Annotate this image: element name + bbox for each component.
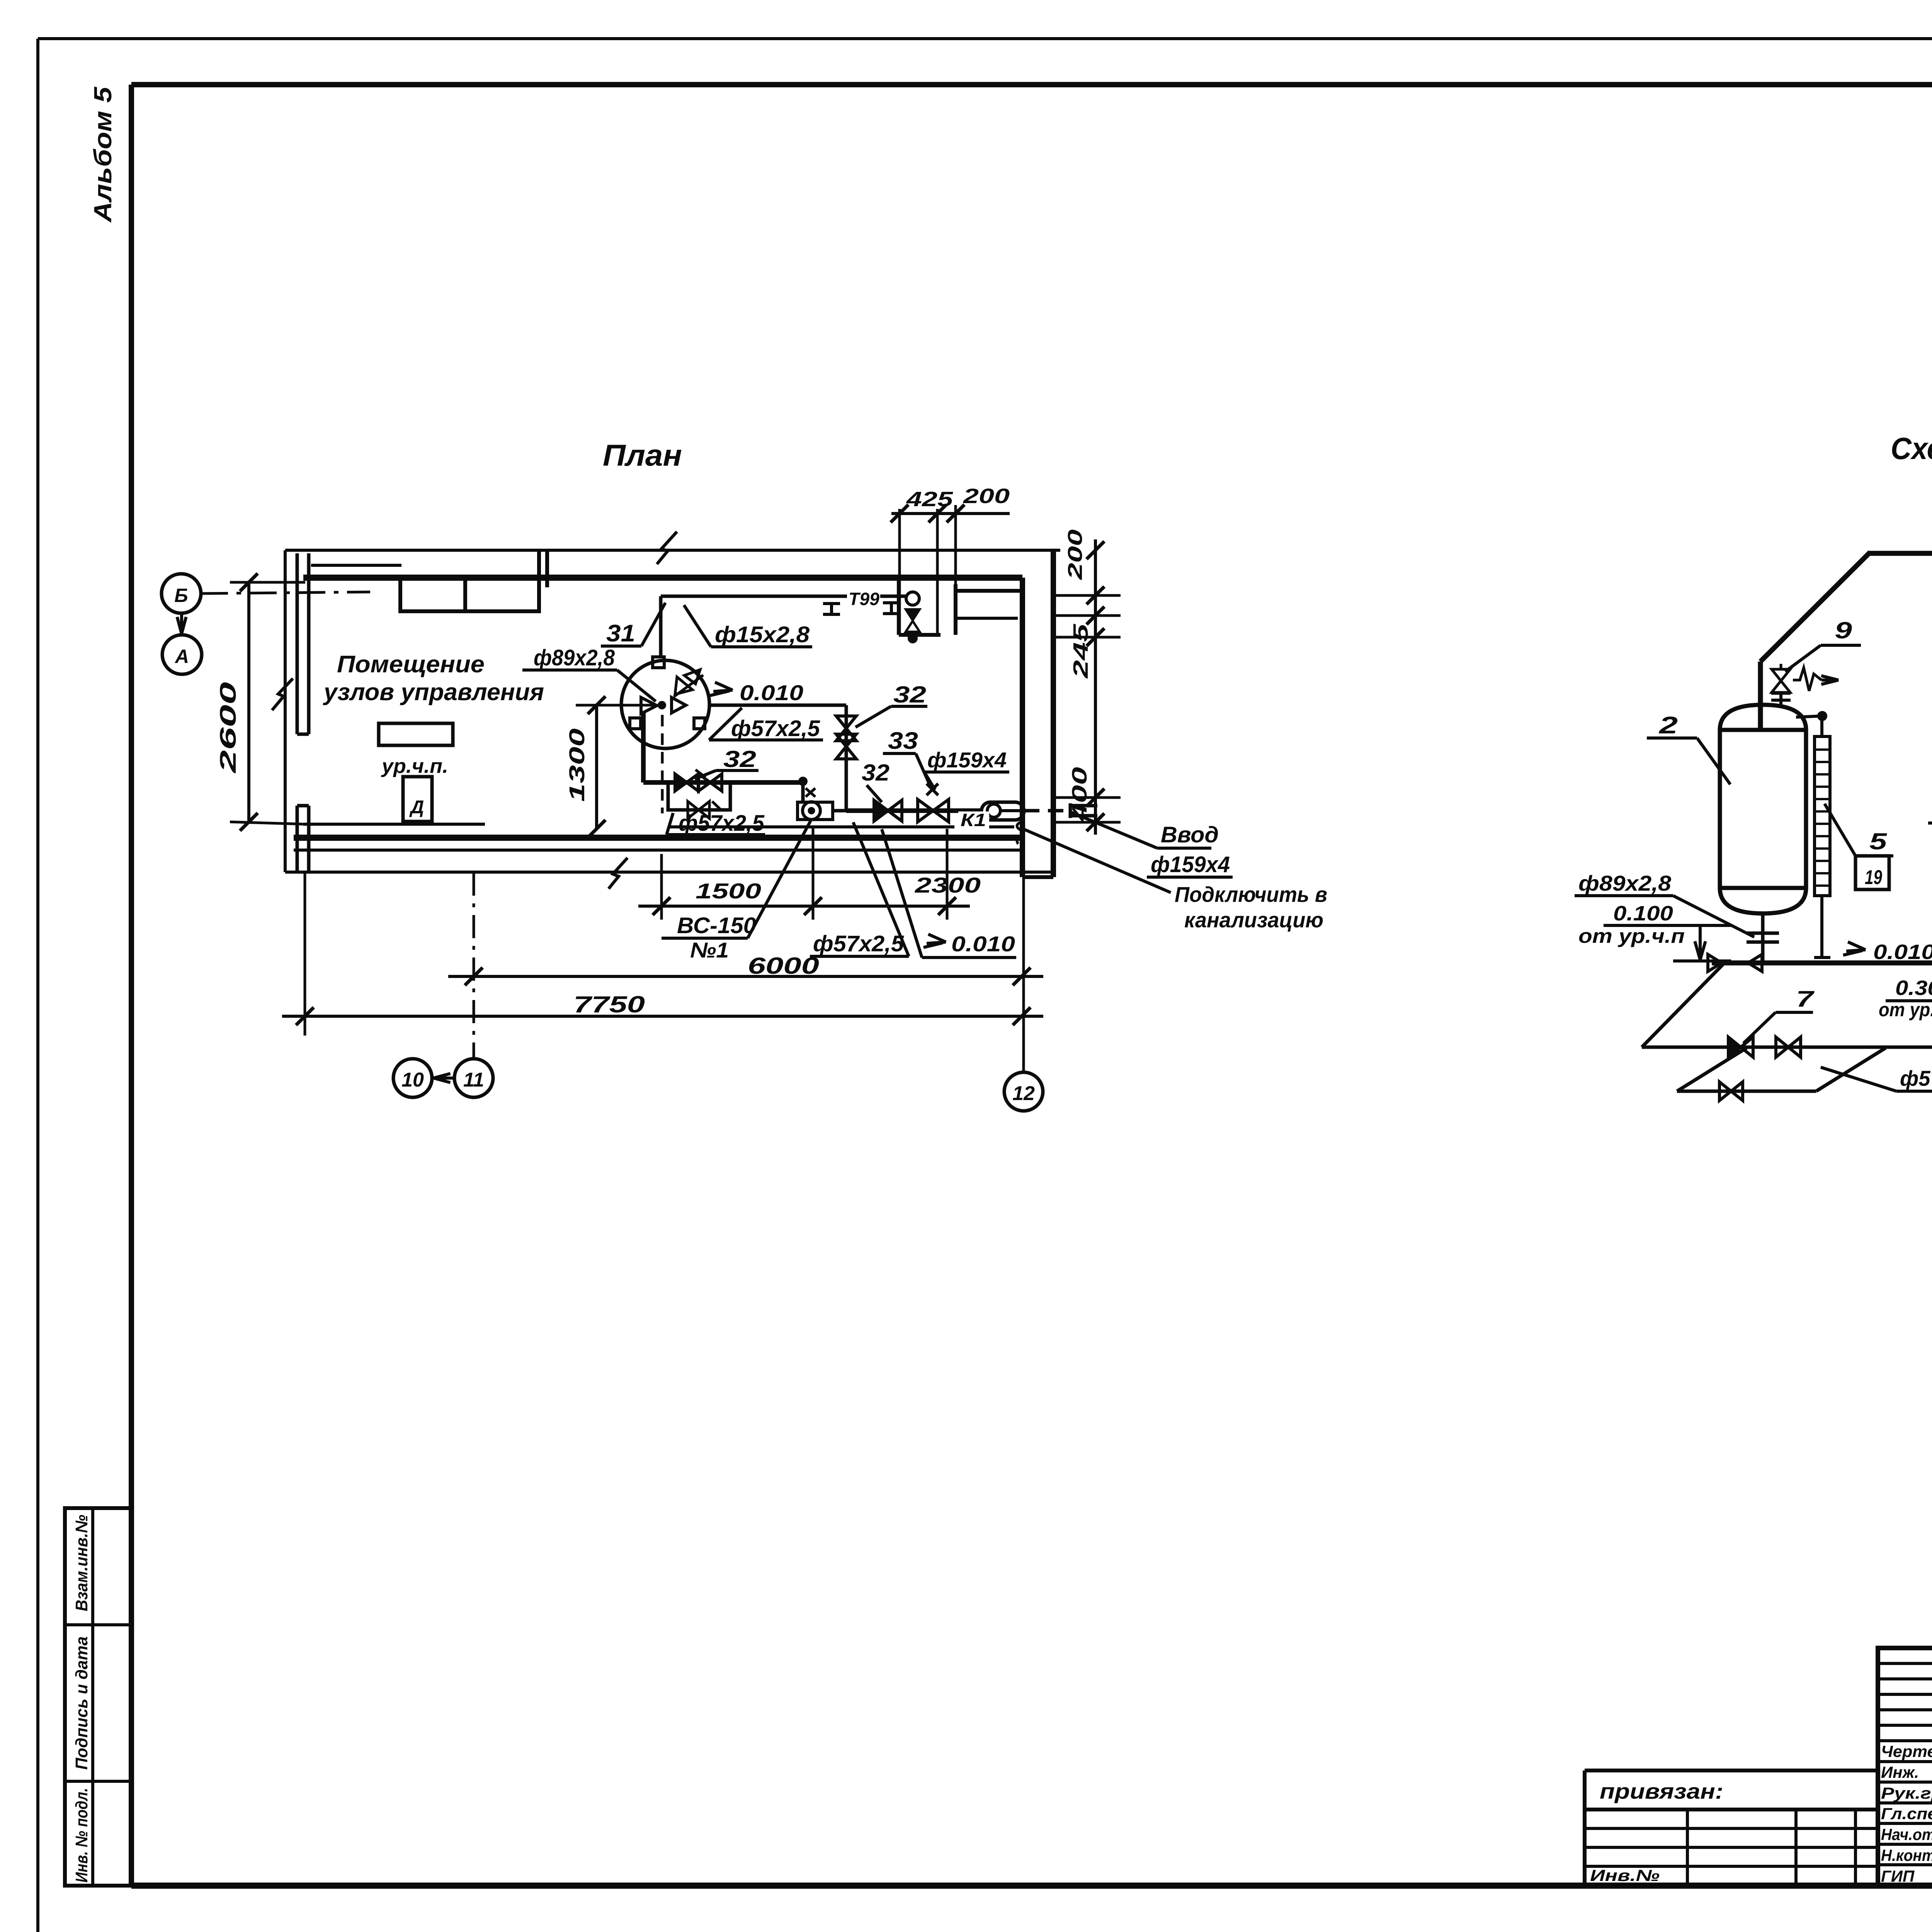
plan top wall pier lines bbox=[539, 550, 547, 587]
svg-text:Т99: Т99 bbox=[849, 589, 879, 609]
svg-text:Инв. № подл.: Инв. № подл. bbox=[72, 1788, 91, 1883]
svg-text:№1: №1 bbox=[690, 938, 729, 962]
svg-text:ф89х2,8: ф89х2,8 bbox=[534, 645, 615, 670]
label 33 bbox=[883, 728, 931, 788]
svg-text:2: 2 bbox=[1659, 712, 1678, 739]
valve 33 lower bbox=[918, 784, 949, 822]
svg-text:узлов управления: узлов управления bbox=[323, 679, 544, 706]
tank bottom pipe with flanges bbox=[1747, 913, 1779, 963]
svg-text:0.010: 0.010 bbox=[951, 932, 1015, 956]
elevation 0.100 schema bbox=[1578, 902, 1731, 961]
flow arrows at pipe start bbox=[1708, 954, 1762, 971]
svg-text:0.100: 0.100 bbox=[1613, 902, 1673, 925]
plan left wall outer line bbox=[284, 550, 287, 872]
label 0.010 bottom bbox=[882, 829, 1016, 957]
svg-text:ф57х2,5: ф57х2,5 bbox=[813, 931, 904, 956]
svg-text:2300: 2300 bbox=[915, 873, 981, 897]
svg-text:ф57х2,5: ф57х2,5 bbox=[731, 716, 820, 741]
svg-text:ф159х4: ф159х4 bbox=[1151, 852, 1230, 877]
svg-text:канализацию: канализацию bbox=[1184, 908, 1323, 932]
label f57x2.5 bottom bbox=[810, 822, 909, 956]
svg-text:ф159х4: ф159х4 bbox=[927, 748, 1007, 772]
pipe riser from unit bbox=[641, 713, 646, 782]
room label pomeshchenie uzlov upravleniya bbox=[323, 651, 544, 706]
axis B dash-dot line bbox=[201, 592, 370, 594]
axis B arrow to A bbox=[177, 613, 186, 634]
label f89x2.8 schema bbox=[1575, 871, 1754, 937]
svg-text:привязан:: привязан: bbox=[1600, 1779, 1723, 1803]
junction dot and drop to meter bbox=[799, 778, 815, 802]
plan bottom wall break symbol bbox=[609, 858, 628, 889]
pipe from unit right with slope 0.010 bbox=[709, 704, 846, 707]
valves 7 on floor edge bbox=[1728, 1037, 1801, 1057]
plan entry niche lines bbox=[899, 578, 1022, 635]
svg-text:6000: 6000 bbox=[748, 953, 819, 979]
plan bottom wall inner line bbox=[303, 823, 485, 826]
right dimension line vertical bbox=[1053, 539, 1121, 835]
svg-text:7: 7 bbox=[1796, 986, 1815, 1012]
control unit dashed drain line bbox=[661, 715, 664, 813]
svg-text:1500: 1500 bbox=[696, 879, 761, 903]
wall sleeve gland bbox=[981, 802, 1024, 820]
svg-text:Рук.гр.: Рук.гр. bbox=[1881, 1784, 1932, 1802]
svg-text:Схема трубопроводов: Схема трубопроводов bbox=[1891, 431, 1932, 466]
svg-text:200: 200 bbox=[1064, 529, 1087, 580]
svg-text:0.010: 0.010 bbox=[740, 680, 803, 705]
svg-text:Н.контр.: Н.контр. bbox=[1881, 1846, 1932, 1864]
svg-text:ф57х2,5: ф57х2,5 bbox=[1900, 1066, 1932, 1090]
svg-text:32: 32 bbox=[862, 760, 889, 786]
title row Инж. bbox=[1881, 1760, 1932, 1782]
svg-text:ГИП: ГИП bbox=[1881, 1867, 1915, 1885]
check valve 32 lower bbox=[874, 800, 902, 821]
svg-text:План: План bbox=[603, 438, 682, 472]
svg-text:12: 12 bbox=[1012, 1082, 1035, 1105]
lower floor plane bbox=[1677, 1048, 1886, 1091]
label f15x2.8 plan bbox=[684, 605, 812, 647]
svg-text:32: 32 bbox=[723, 746, 756, 772]
water meter VS-150 bbox=[798, 802, 846, 820]
label 0.010 slope schema bbox=[1843, 940, 1932, 964]
label 32 lower bbox=[862, 760, 889, 802]
elevation 0.300 bbox=[1879, 976, 1932, 1035]
svg-text:2600: 2600 bbox=[216, 682, 241, 774]
dimension 1300 bbox=[565, 696, 657, 838]
safety valve 9 group bbox=[1771, 664, 1838, 707]
svg-text:от ур.ч.п: от ур.ч.п bbox=[1578, 925, 1685, 947]
svg-text:Помещение: Помещение bbox=[337, 651, 485, 678]
label 2 tank bbox=[1647, 712, 1730, 784]
plan top wall inner thick line bbox=[303, 575, 1022, 581]
svg-text:7750: 7750 bbox=[573, 992, 645, 1017]
title row Гл.спец bbox=[1881, 1802, 1932, 1823]
pipe dashed through wall bbox=[1024, 809, 1070, 813]
svg-text:ур.ч.п.: ур.ч.п. bbox=[381, 755, 448, 777]
arrow 11 to 10 bbox=[434, 1073, 454, 1082]
svg-text:400: 400 bbox=[1068, 767, 1091, 822]
svg-text:Ввод: Ввод bbox=[1161, 822, 1219, 847]
svg-text:1300: 1300 bbox=[565, 728, 589, 802]
bypass loop with valve bbox=[668, 782, 730, 818]
pipe f15x2.8 horizontal bbox=[661, 595, 907, 598]
label VS-150 N1 bbox=[662, 821, 811, 962]
label f57x2.5 upper bbox=[709, 708, 823, 741]
label 3 bbox=[1928, 796, 1932, 877]
svg-text:245: 245 bbox=[1069, 624, 1092, 679]
dimension 2600 bbox=[216, 573, 305, 831]
title row ГИП bbox=[1881, 1864, 1932, 1886]
dimension 1500-2300 extension lines bbox=[662, 827, 947, 920]
svg-text:К1: К1 bbox=[961, 810, 986, 830]
plan left wall upper segment outline bbox=[297, 553, 309, 734]
main pipe 0.010 horizontal bbox=[1712, 961, 1932, 966]
plan bottom wall thick line bbox=[294, 835, 1022, 841]
title block signature table bbox=[1878, 1648, 1932, 1886]
label vvod plan bbox=[1157, 822, 1219, 848]
plan right wall bottom edge bbox=[1022, 875, 1053, 879]
svg-text:19: 19 bbox=[1865, 866, 1882, 889]
svg-text:9: 9 bbox=[1835, 617, 1852, 643]
plan left wall lower segment outline bbox=[297, 806, 309, 871]
svg-text:11: 11 bbox=[463, 1069, 484, 1091]
title row Н.контр. bbox=[1881, 1844, 1932, 1865]
axis line 11 vertical bbox=[473, 872, 475, 1059]
label f159x4 vvod bbox=[1147, 852, 1233, 877]
control unit circle bbox=[621, 657, 709, 748]
svg-text:Подключить в: Подключить в bbox=[1175, 882, 1327, 906]
svg-text:Взам.инв.№: Взам.инв.№ bbox=[72, 1515, 91, 1611]
plan gauge on drain bbox=[906, 592, 920, 642]
floor plane parallelogram bbox=[1642, 964, 1932, 1047]
plan right wall inner line bbox=[1020, 578, 1025, 877]
dimension 425-200 top bbox=[891, 485, 1010, 635]
svg-text:0.300: 0.300 bbox=[1895, 976, 1932, 1000]
axis circle 11 bbox=[454, 1059, 493, 1097]
control unit small valve bbox=[674, 670, 703, 697]
svg-text:33: 33 bbox=[888, 728, 918, 754]
svg-text:10: 10 bbox=[401, 1069, 424, 1091]
axis line 12 vertical bbox=[1022, 829, 1025, 1072]
title row Рук.гр. bbox=[1881, 1781, 1932, 1803]
title row Чертеж bbox=[1881, 1740, 1932, 1761]
svg-text:0.010: 0.010 bbox=[1873, 940, 1932, 964]
svg-text:425: 425 bbox=[906, 488, 954, 511]
plan top wall break symbol bbox=[657, 532, 677, 564]
label 31 bbox=[601, 603, 665, 647]
left stamp table bbox=[65, 1508, 131, 1886]
level gauge 5 connection bbox=[1796, 712, 1826, 736]
label f57x2.5 floor bbox=[1821, 1066, 1932, 1091]
svg-text:ф57х2,5: ф57х2,5 bbox=[679, 811, 765, 836]
label 32 upper right bbox=[855, 682, 927, 727]
label T99 on plan pipe bbox=[847, 587, 880, 609]
plan left wall break symbol bbox=[272, 679, 293, 710]
svg-text:Д: Д bbox=[409, 797, 424, 818]
plan bottom wall outer line bbox=[285, 871, 1053, 874]
plan top wall outer line bbox=[285, 549, 1060, 552]
label f89x2.8 plan bbox=[522, 645, 656, 701]
pipe through lower header bbox=[846, 808, 981, 813]
label f159x4 plan bbox=[924, 748, 1009, 790]
svg-text:Подпись и дата: Подпись и дата bbox=[72, 1636, 91, 1770]
axis circle 10 bbox=[393, 1059, 432, 1097]
tank top pipe riser bbox=[1760, 552, 1870, 729]
pipe stub outside wall bbox=[1070, 803, 1097, 818]
axis circle B bbox=[162, 574, 201, 613]
leader vvod plan bbox=[1071, 812, 1157, 848]
canalization line K1 bbox=[668, 822, 1023, 844]
equipment box D bbox=[403, 777, 432, 821]
svg-text:Инв.№: Инв.№ bbox=[1590, 1866, 1660, 1884]
pipe support symbols bbox=[823, 603, 900, 614]
pipe riser to f15 line bbox=[659, 596, 663, 657]
svg-text:ф89х2,8: ф89х2,8 bbox=[1578, 871, 1672, 895]
leader podklyuchit plan bbox=[1022, 828, 1171, 893]
label 5 and 19 box bbox=[1825, 804, 1893, 889]
control unit inner flow arrows bbox=[641, 697, 686, 714]
label 9 bbox=[1785, 617, 1861, 672]
svg-text:А: А bbox=[174, 646, 189, 667]
privyazan block bbox=[1585, 1770, 1878, 1886]
valves 32 pair on header bbox=[675, 770, 722, 791]
svg-text:от ур.ч.п.: от ур.ч.п. bbox=[1879, 999, 1932, 1020]
valve on lower plane bbox=[1719, 1082, 1731, 1100]
ur.ch.p. box bbox=[379, 723, 453, 777]
plan right wall outer line bbox=[1051, 550, 1056, 877]
label 7 bbox=[1743, 986, 1815, 1043]
plan bottom wall lower line bbox=[294, 849, 1022, 852]
dimension 6000 bbox=[448, 953, 1043, 985]
svg-text:Альбом 5: Альбом 5 bbox=[89, 86, 117, 223]
svg-text:Гл.спец: Гл.спец bbox=[1881, 1804, 1932, 1823]
svg-text:ВС-150: ВС-150 bbox=[677, 913, 756, 938]
pipe header thick bbox=[643, 780, 803, 785]
svg-text:Чертеж: Чертеж bbox=[1881, 1742, 1932, 1760]
pipe T99 main horizontal bbox=[1868, 551, 1932, 556]
level gauge 5 column bbox=[1814, 736, 1830, 958]
svg-text:32: 32 bbox=[893, 682, 926, 707]
tank 2 vessel bbox=[1720, 705, 1806, 913]
plan top wall window box bbox=[400, 578, 539, 611]
svg-text:200: 200 bbox=[963, 485, 1010, 508]
svg-text:ф15х2,8: ф15х2,8 bbox=[715, 622, 810, 647]
label f57x2.5 bypass bbox=[667, 811, 765, 836]
title row Нач.отд. bbox=[1881, 1823, 1932, 1844]
slope arrow 0.010 plan bbox=[710, 680, 803, 705]
dimension 7750 bbox=[282, 873, 1043, 1036]
svg-text:Б: Б bbox=[174, 585, 188, 606]
label 32 mid bbox=[695, 746, 759, 779]
plan top wall inner ledge left bbox=[311, 564, 401, 567]
svg-text:Инж.: Инж. bbox=[1881, 1763, 1919, 1781]
pipe drop to valves 32 bbox=[845, 705, 848, 811]
label podklyuchit plan bbox=[1175, 882, 1327, 932]
dimension 1500 bbox=[638, 879, 970, 915]
axis circle A bbox=[162, 635, 202, 674]
axis circle 12 bbox=[1004, 1072, 1043, 1111]
svg-text:31: 31 bbox=[606, 620, 635, 647]
svg-text:Нач.отд.: Нач.отд. bbox=[1881, 1825, 1932, 1844]
label K1 plan bbox=[958, 810, 989, 830]
svg-text:5: 5 bbox=[1869, 828, 1888, 854]
valves 32 on drop bbox=[836, 716, 856, 759]
